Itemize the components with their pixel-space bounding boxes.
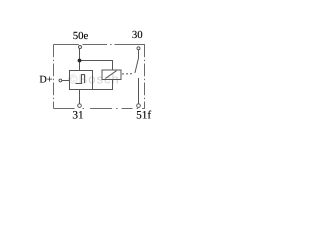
- relay coil K1: [102, 70, 121, 80]
- svg-text:D+: D+: [39, 75, 52, 86]
- wire regulator box to terminal 31: [79, 90, 81, 104]
- wire switch to terminal 51f: [138, 78, 140, 104]
- regulator box U1: [70, 71, 93, 90]
- svg-text:51f: 51f: [136, 109, 151, 121]
- wire junction to relay coil top: [80, 61, 113, 71]
- svg-text:30: 30: [132, 29, 143, 41]
- svg-text:50e: 50e: [73, 30, 89, 42]
- mechanical link dashed: [122, 73, 134, 75]
- wire 50e down to regulator box: [79, 49, 81, 71]
- junction node: [78, 59, 82, 63]
- terminal 51f: [137, 104, 141, 108]
- terminal 30: [137, 47, 140, 50]
- regulator step symbol: [76, 75, 85, 84]
- wire D+ to regulator box: [62, 80, 69, 82]
- relay coil diagonal: [106, 71, 117, 79]
- terminal D+: [59, 79, 62, 82]
- wire 30 down to switch blade: [138, 50, 140, 59]
- terminal 50e: [79, 46, 82, 49]
- wire coil bottom to regulator box corner: [93, 80, 113, 90]
- switch blade: [135, 59, 139, 74]
- svg-text:31: 31: [72, 109, 83, 121]
- terminal 31: [78, 104, 82, 108]
- enclosure dashed-dotted boundary box: [54, 45, 145, 109]
